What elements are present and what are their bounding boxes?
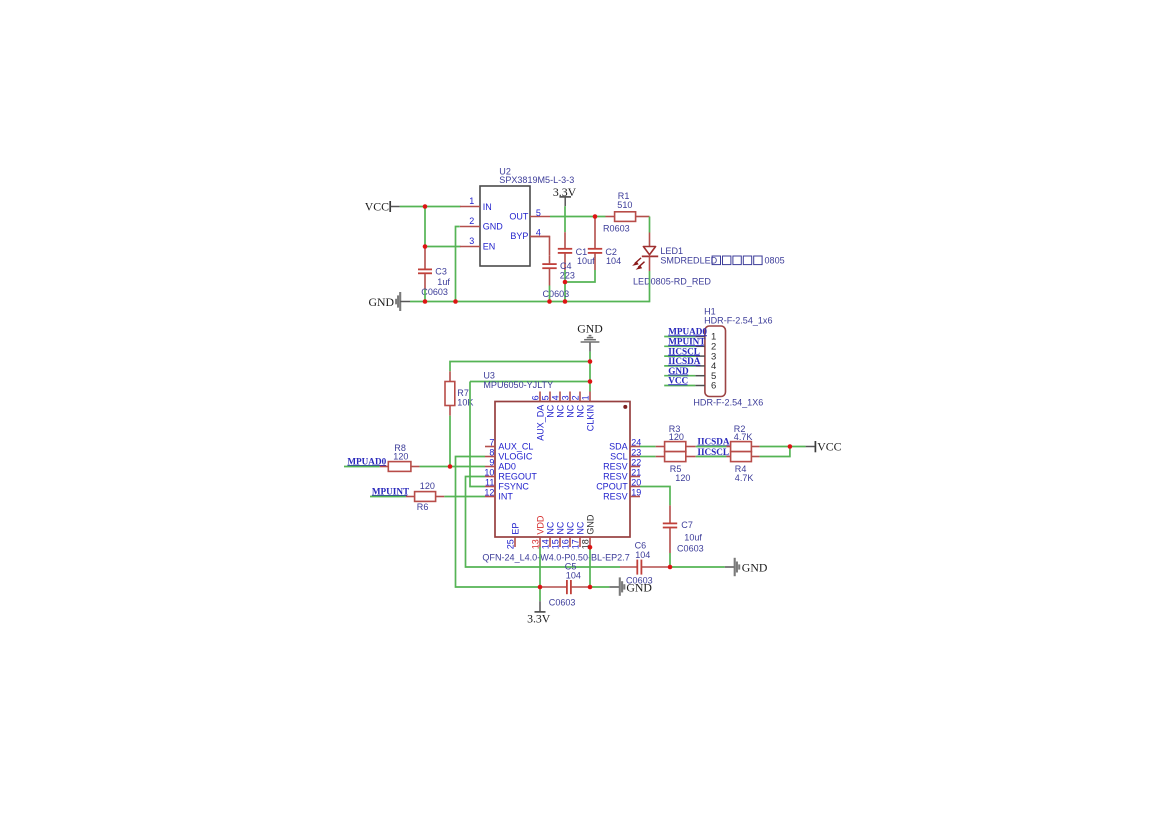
- svg-text:7: 7: [489, 438, 494, 448]
- wire C7 to GND net: [669, 553, 671, 567]
- svg-text:NC: NC: [565, 404, 575, 417]
- wire MPUAD0 to R8: [344, 466, 380, 468]
- svg-text:VCC: VCC: [365, 199, 389, 213]
- capacitor C5: [540, 561, 590, 607]
- svg-text:1uf: 1uf: [437, 277, 450, 287]
- svg-text:15: 15: [551, 539, 561, 549]
- svg-text:510: 510: [617, 200, 632, 210]
- svg-text:AD0: AD0: [498, 461, 516, 471]
- node AD0/R7 junction: [448, 464, 453, 469]
- svg-text:LED0805-RD_RED: LED0805-RD_RED: [633, 276, 711, 286]
- svg-text:16: 16: [561, 539, 571, 549]
- wire OUT net: [550, 216, 606, 218]
- node OUT/C2 junction: [593, 214, 598, 219]
- svg-text:8: 8: [489, 448, 494, 458]
- wire R5 to R4: [696, 456, 727, 458]
- svg-text:23: 23: [631, 448, 641, 458]
- wire MPUINT to R6: [370, 496, 406, 498]
- node C5/GND junction: [588, 585, 593, 590]
- svg-text:RESV: RESV: [603, 461, 628, 471]
- svg-text:6: 6: [531, 395, 541, 400]
- ground GND middle: [609, 577, 652, 595]
- svg-text:AUX_DA: AUX_DA: [535, 405, 545, 441]
- svg-text:MPU6050-YJLTY: MPU6050-YJLTY: [483, 380, 553, 390]
- wire VDD down to 3.3V: [539, 547, 541, 601]
- LED LED1: [632, 233, 785, 287]
- port VCC: [365, 199, 400, 213]
- resistor R2: [726, 424, 759, 452]
- node pin18: [588, 545, 593, 550]
- svg-text:NC: NC: [565, 521, 575, 534]
- svg-text:10uf: 10uf: [577, 256, 595, 266]
- resistor R3: [656, 424, 696, 452]
- wire H1 pin4: [664, 365, 695, 367]
- svg-text:NC: NC: [545, 404, 555, 417]
- svg-text:MPUAD0: MPUAD0: [347, 456, 386, 466]
- wire R4 up to VCC node: [760, 447, 790, 457]
- svg-text:SPX3819M5-L-3-3: SPX3819M5-L-3-3: [499, 175, 574, 185]
- svg-text:104: 104: [566, 571, 581, 581]
- svg-text:VCC: VCC: [668, 376, 688, 386]
- node VCC junction: [423, 204, 428, 209]
- svg-text:SMDREDLED: SMDREDLED: [660, 256, 717, 266]
- node VCC pullup junction: [788, 444, 793, 449]
- connector H1 HDR-F-2.54_1x6: [693, 307, 772, 408]
- svg-text:3: 3: [469, 236, 474, 246]
- wire R7 down to AD0 net: [449, 416, 451, 467]
- svg-text:C3: C3: [435, 267, 447, 277]
- resistor R8: [380, 443, 420, 472]
- resistor R7: [445, 371, 473, 415]
- svg-text:4.7K: 4.7K: [734, 432, 753, 442]
- svg-text:GND: GND: [577, 322, 603, 336]
- wire REGOUT to C6: [466, 477, 621, 568]
- wire VCC to U2 IN: [400, 206, 461, 208]
- svg-text:CPOUT: CPOUT: [596, 481, 628, 491]
- capacitor C4: [530, 237, 575, 300]
- svg-text:9: 9: [489, 458, 494, 468]
- svg-text:10K: 10K: [457, 398, 473, 408]
- svg-text:GND: GND: [483, 221, 504, 231]
- wire VLOGIC to 3.3V node: [456, 457, 541, 588]
- IC U3 MPU6050: [482, 371, 641, 563]
- wire H1 pin1: [664, 336, 695, 338]
- svg-text:R0603: R0603: [603, 224, 630, 234]
- svg-text:3: 3: [561, 395, 571, 400]
- wire C6 junction to GND port: [670, 566, 725, 568]
- svg-text:LED1: LED1: [660, 246, 683, 256]
- wire R2 to VCC: [760, 446, 806, 448]
- svg-text:1: 1: [581, 395, 591, 400]
- svg-text:GND: GND: [585, 514, 595, 535]
- wire R3 to R2: [696, 446, 727, 448]
- svg-text:14: 14: [541, 539, 551, 549]
- svg-text:4.7K: 4.7K: [735, 473, 754, 483]
- resistor R5: [656, 452, 696, 484]
- svg-text:SDA: SDA: [609, 441, 628, 451]
- svg-text:VLOGIC: VLOGIC: [498, 451, 533, 461]
- capacitor C6: [620, 541, 668, 586]
- wire GND18 down: [589, 547, 591, 587]
- svg-text:HDR-F-2.54_1x6: HDR-F-2.54_1x6: [704, 316, 772, 326]
- svg-text:1: 1: [469, 196, 474, 206]
- svg-text:11: 11: [485, 478, 494, 488]
- node: [588, 359, 593, 364]
- svg-text:GND: GND: [626, 580, 652, 594]
- resistor R4: [726, 452, 759, 484]
- svg-text:AUX_CL: AUX_CL: [498, 441, 533, 451]
- svg-text:HDR-F-2.54_1X6: HDR-F-2.54_1X6: [693, 398, 763, 408]
- wire FSYNC net top: [470, 381, 590, 383]
- svg-text:2: 2: [469, 216, 474, 226]
- svg-text:6: 6: [711, 381, 716, 392]
- wire H1 pin5: [664, 375, 695, 377]
- svg-text:OUT: OUT: [509, 211, 529, 221]
- svg-text:3.3V: 3.3V: [527, 612, 551, 626]
- svg-text:17: 17: [571, 539, 581, 549]
- svg-text:R6: R6: [417, 502, 429, 512]
- wire H1 pin3: [664, 355, 695, 357]
- capacitor C3: [418, 247, 450, 298]
- svg-text:NC: NC: [545, 521, 555, 534]
- svg-text:QFN-24_L4.0-W4.0-P0.50-BL-EP2.: QFN-24_L4.0-W4.0-P0.50-BL-EP2.7: [482, 553, 629, 563]
- wire VCC down to EN: [425, 207, 461, 247]
- svg-text:IN: IN: [483, 202, 492, 212]
- svg-text:C0603: C0603: [549, 598, 576, 608]
- svg-text:REGOUT: REGOUT: [498, 471, 537, 481]
- svg-text:IICSCL: IICSCL: [697, 447, 729, 457]
- svg-text:5: 5: [536, 208, 541, 218]
- resistor R6: [406, 481, 444, 512]
- svg-text:IICSCL: IICSCL: [668, 346, 700, 356]
- wire GND down to CLKIN: [589, 352, 591, 392]
- capacitor C7: [663, 505, 704, 553]
- wire C1 bottom to rail: [564, 270, 566, 302]
- wire C3 to rail: [424, 290, 426, 302]
- svg-text:25: 25: [506, 539, 516, 549]
- capacitor C2: [588, 217, 621, 270]
- svg-text:10: 10: [484, 468, 494, 478]
- svg-text:INT: INT: [498, 491, 513, 501]
- wire R6 to INT: [444, 496, 485, 498]
- wire GND rail: [410, 301, 650, 303]
- regulator U2 SPX3819M5-L-3-3: [460, 166, 574, 266]
- svg-text:CLKIN: CLKIN: [585, 405, 595, 432]
- wire C2 bottom over to C1: [565, 270, 595, 282]
- svg-text:MPUAD0: MPUAD0: [668, 327, 707, 337]
- svg-text:VDD: VDD: [535, 515, 545, 535]
- svg-text:C7: C7: [681, 520, 693, 530]
- svg-text:NC: NC: [555, 521, 565, 534]
- svg-text:C0603: C0603: [543, 289, 570, 299]
- node C1/C2 junction: [563, 280, 568, 285]
- node: [588, 379, 593, 384]
- capacitor C1: [558, 232, 595, 270]
- wire LED to rail: [649, 271, 651, 302]
- wire H1 pin6: [664, 385, 695, 387]
- svg-text:EN: EN: [483, 242, 496, 252]
- wire C4 to rail: [549, 286, 551, 302]
- wire CPOUT to C7: [640, 487, 670, 506]
- svg-text:104: 104: [606, 256, 621, 266]
- ground GND top: [577, 322, 603, 352]
- svg-text:GND: GND: [742, 560, 768, 574]
- wire FSYNC up to GND net: [470, 382, 485, 487]
- svg-text:4: 4: [551, 395, 561, 400]
- svg-text:IICSDA: IICSDA: [668, 356, 701, 366]
- node C6/C7 junction: [668, 565, 673, 570]
- ground GND right: [725, 558, 768, 576]
- svg-text:FSYNC: FSYNC: [498, 481, 529, 491]
- power flag 3.3V bottom: [527, 601, 551, 625]
- svg-text:22: 22: [631, 458, 641, 468]
- resistor R1: [603, 191, 650, 234]
- svg-text:19: 19: [631, 488, 641, 498]
- svg-text:NC: NC: [575, 404, 585, 417]
- svg-text:NC: NC: [575, 521, 585, 534]
- wire SDA to R3: [640, 446, 656, 448]
- wire SCL to R5: [640, 456, 656, 458]
- svg-text:12: 12: [484, 488, 494, 498]
- wire U2 GND pin down to rail: [456, 227, 460, 302]
- svg-text:10uf: 10uf: [684, 532, 702, 542]
- power flag 3.3V top: [553, 185, 577, 206]
- wire R1 to LED: [649, 217, 651, 233]
- port VCC right: [806, 440, 842, 454]
- node rail junctions: [423, 299, 428, 304]
- svg-text:GND: GND: [668, 366, 689, 376]
- wire H1 pin2: [664, 345, 695, 347]
- wire 3.3V down through OUT to C1: [564, 206, 566, 232]
- svg-text:223: 223: [560, 271, 575, 281]
- svg-text:BYP: BYP: [510, 231, 528, 241]
- node EN junction: [423, 244, 428, 249]
- ground GND left: [368, 292, 410, 311]
- svg-text:C0603: C0603: [677, 543, 704, 553]
- svg-text:VCC: VCC: [817, 440, 841, 454]
- svg-text:120: 120: [669, 432, 684, 442]
- svg-text:NC: NC: [555, 404, 565, 417]
- svg-text:MPUINT: MPUINT: [372, 486, 409, 496]
- svg-text:RESV: RESV: [603, 471, 628, 481]
- svg-text:21: 21: [631, 468, 641, 478]
- node VDD/C5 junction: [538, 585, 543, 590]
- svg-text:RESV: RESV: [603, 491, 628, 501]
- svg-text:24: 24: [631, 438, 641, 448]
- svg-text:MPUINT: MPUINT: [668, 337, 705, 347]
- svg-text:GND: GND: [368, 295, 394, 309]
- svg-text:2: 2: [571, 395, 581, 400]
- svg-text:20: 20: [631, 478, 641, 488]
- svg-text:C4: C4: [560, 261, 572, 271]
- wire R8 to AD0: [420, 466, 485, 468]
- svg-text:SCL: SCL: [610, 451, 628, 461]
- svg-text:EP: EP: [510, 523, 520, 535]
- wire R7 net: [450, 362, 590, 372]
- svg-text:IICSDA: IICSDA: [697, 437, 730, 447]
- svg-text:120: 120: [675, 473, 690, 483]
- svg-text:120: 120: [420, 481, 435, 491]
- svg-text:0805: 0805: [765, 256, 785, 266]
- svg-text:120: 120: [393, 451, 408, 461]
- svg-text:5: 5: [541, 395, 551, 400]
- wire C5 junction to GND port: [590, 586, 609, 588]
- svg-text:104: 104: [635, 550, 650, 560]
